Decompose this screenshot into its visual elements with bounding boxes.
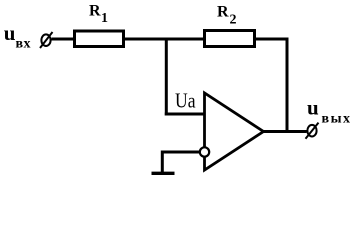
svg-text:1: 1 [101,11,108,26]
wire: R1 to R2 through summing node [124,38,204,41]
svg-text:2: 2 [230,13,237,28]
wire: input terminal to R1 [52,38,76,41]
svg-text:R: R [217,4,229,21]
svg-text:вых: вых [322,111,351,126]
svg-text:u: u [4,21,16,45]
op-amp Ua (triangle) [205,93,264,170]
output label u_вых [307,96,350,127]
svg-text:Ua: Ua [175,89,196,113]
svg-text:u: u [307,96,319,120]
wire: feedback vertical drop to output node [286,38,289,132]
label R2 [217,4,237,28]
resistor R1 [75,31,124,47]
svg-text:вх: вх [16,37,31,52]
output terminal (slashed circle) [306,123,319,139]
wire: op-amp output to output terminal [262,130,307,133]
label R1 [89,3,108,27]
inverting input indicator circle [200,147,209,156]
wire: R2 to feedback corner [253,38,289,41]
svg-text:R: R [89,3,101,20]
input terminal (slashed circle) [40,32,53,48]
wire: summing node down to op-amp inverting input [165,38,168,116]
wire: ground to op-amp lower input [161,151,200,154]
ground [152,151,175,174]
input label u_вх [4,21,31,52]
resistor R2 [205,31,255,47]
wire: horizontal into op-amp top input [165,113,205,116]
